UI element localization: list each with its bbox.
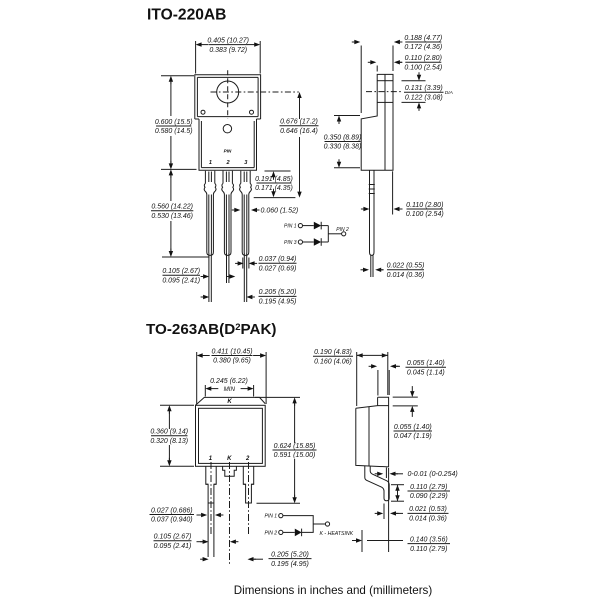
- common cathode bus wire: [327, 226, 329, 242]
- svg-text:0.646 (16.4): 0.646 (16.4): [280, 128, 318, 135]
- dim 0.405/0.383 (front width): [207, 37, 249, 53]
- svg-text:0.188 (4.77): 0.188 (4.77): [404, 35, 442, 42]
- TO-263 side lead (gull wing): [365, 466, 389, 501]
- dim 0.105/0.095 (lead pitch): [162, 268, 200, 284]
- corner hole right: [250, 110, 254, 114]
- svg-text:PIN 2: PIN 2: [264, 531, 277, 537]
- TO-263 body outline: [196, 405, 266, 466]
- svg-text:Dimensions in inches and (mill: Dimensions in inches and (millimeters): [234, 584, 433, 597]
- svg-text:1: 1: [209, 160, 212, 166]
- svg-text:PIN: PIN: [224, 149, 232, 154]
- svg-text:0.022 (0.55): 0.022 (0.55): [387, 263, 425, 270]
- dim 0.131/0.122 hole DIA: [404, 85, 444, 101]
- svg-text:0.624 (15.85): 0.624 (15.85): [274, 443, 316, 450]
- body dimple: [223, 125, 231, 133]
- dim 0.360/0.320 (body height): [150, 429, 188, 445]
- right dimension line 0.676: [297, 92, 301, 198]
- svg-text:PIN 1: PIN 1: [284, 224, 297, 230]
- svg-text:0-0.01 (0-0.254): 0-0.01 (0-0.254): [408, 471, 458, 478]
- svg-text:0.530 (13.46): 0.530 (13.46): [151, 213, 193, 220]
- svg-text:0.037 (0.94): 0.037 (0.94): [259, 256, 297, 263]
- svg-text:0.131 (3.39): 0.131 (3.39): [405, 85, 443, 92]
- TO-263 lead 2: [243, 466, 253, 503]
- diode D2: [314, 238, 321, 246]
- dim 0.205/0.195 (lead span): [259, 289, 297, 305]
- svg-text:0.195 (4.95): 0.195 (4.95): [259, 299, 297, 306]
- wire pin1 to diode D1: [303, 225, 314, 227]
- svg-text:0.411 (10.45): 0.411 (10.45): [211, 348, 252, 355]
- svg-text:0.095 (2.41): 0.095 (2.41): [162, 277, 200, 284]
- svg-text:0.320 (8.13): 0.320 (8.13): [150, 438, 188, 445]
- svg-text:PIN 3: PIN 3: [284, 240, 297, 246]
- svg-text:ITO-220AB: ITO-220AB: [147, 6, 226, 23]
- wire pin3 to diode D2: [303, 241, 314, 243]
- dim 0.560/0.530 (lead length): [151, 204, 193, 220]
- svg-text:3: 3: [244, 160, 248, 166]
- lead 2 (front view): [222, 171, 234, 256]
- terminal PIN 3: [298, 240, 302, 244]
- svg-text:0.330 (8.38): 0.330 (8.38): [324, 144, 362, 151]
- svg-text:0.090 (2.29): 0.090 (2.29): [410, 493, 448, 500]
- svg-text:0.405 (10.27): 0.405 (10.27): [207, 37, 249, 44]
- dim lines 0.191: [254, 171, 296, 198]
- dim 0.205/0.195 (lead pitch): [269, 551, 312, 567]
- svg-text:0.027 (0.69): 0.027 (0.69): [259, 265, 297, 272]
- dim 0.110/0.090 (foot height): [408, 484, 451, 500]
- svg-text:0.190 (4.83): 0.190 (4.83): [314, 349, 352, 356]
- dim 0.600/0.580 (front height): [155, 119, 193, 135]
- dim 0.140/0.110 (lead reach): [408, 536, 451, 552]
- diode D1: [314, 222, 321, 230]
- center centerline K: [229, 462, 231, 566]
- svg-text:0.045 (1.14): 0.045 (1.14): [407, 369, 445, 376]
- lead centerline 1: [210, 462, 212, 535]
- side view lead: [369, 170, 375, 255]
- svg-text:K: K: [227, 399, 232, 405]
- svg-text:0.110 (2.79): 0.110 (2.79): [410, 546, 447, 553]
- lead 1 (front view): [204, 171, 216, 256]
- side mold line: [368, 407, 370, 466]
- dim 0.021/0.014 (foot thickness): [408, 506, 449, 522]
- svg-text:0.360 (9.14): 0.360 (9.14): [150, 429, 188, 436]
- svg-text:0.122 (3.08): 0.122 (3.08): [405, 94, 443, 101]
- svg-text:0.350 (8.89): 0.350 (8.89): [324, 134, 362, 141]
- svg-text:2: 2: [245, 456, 250, 462]
- svg-text:0.021 (0.53): 0.021 (0.53): [409, 506, 447, 513]
- dim 0.188/0.172 (side total depth): [404, 35, 442, 51]
- ITO-220AB side view outline: [361, 74, 393, 170]
- dim 0.191/0.171 (lead shoulder): [255, 176, 293, 192]
- svg-text:0.160 (4.06): 0.160 (4.06): [314, 359, 352, 366]
- dim 0.676/0.646 (overall height): [280, 119, 319, 135]
- svg-text:MIN: MIN: [224, 386, 236, 393]
- svg-text:0.380 (9.65): 0.380 (9.65): [213, 358, 251, 365]
- wire diode to node (TO-263): [302, 524, 314, 532]
- svg-text:0.560 (14.22): 0.560 (14.22): [151, 204, 193, 211]
- dim 0.624/0.591 (overall height): [273, 443, 317, 459]
- hole centerlines: [211, 70, 299, 118]
- svg-text:0.195 (4.95): 0.195 (4.95): [271, 561, 309, 568]
- dim 0.110/0.100 (lead offset): [406, 202, 444, 218]
- svg-text:0.055 (1.40): 0.055 (1.40): [407, 360, 445, 367]
- svg-text:0.245 (6.22): 0.245 (6.22): [210, 378, 248, 385]
- lead 3 (front view): [240, 171, 252, 256]
- svg-text:0.100 (2.54): 0.100 (2.54): [406, 211, 444, 218]
- svg-text:0.676 (17.2): 0.676 (17.2): [280, 119, 318, 126]
- svg-text:0.037 (0.940): 0.037 (0.940): [151, 517, 193, 524]
- svg-text:0.095 (2.41): 0.095 (2.41): [154, 543, 192, 550]
- dim 0.350/0.330 (side body height): [324, 134, 362, 150]
- dim 0.110/0.100 (tab thickness): [404, 55, 442, 71]
- terminal K heatsink: [325, 522, 329, 526]
- svg-text:0.027 (0.686): 0.027 (0.686): [151, 507, 193, 514]
- svg-text:0.591 (15.00): 0.591 (15.00): [274, 452, 316, 459]
- dim 0.022/0.014 (lead thickness): [387, 263, 425, 279]
- corner hole left: [201, 110, 205, 114]
- svg-text:0.014 (0.36): 0.014 (0.36): [387, 272, 425, 279]
- terminal PIN 1: [298, 224, 302, 228]
- svg-text:0.100 (2.54): 0.100 (2.54): [404, 65, 442, 72]
- ITO-220AB front view package outline: [195, 75, 261, 170]
- mounting hole: [217, 81, 239, 103]
- svg-text:0.383 (9.72): 0.383 (9.72): [209, 47, 247, 54]
- svg-text:1: 1: [209, 456, 213, 462]
- TO-263 tab (trapezoid): [196, 397, 266, 405]
- lead centerline 2: [248, 462, 250, 535]
- diode D1 (TO-263): [295, 529, 302, 537]
- svg-text:K - HEATSINK: K - HEATSINK: [320, 531, 354, 537]
- dim 0.037/0.027 (lead tip width): [259, 256, 297, 272]
- svg-text:DIA: DIA: [445, 90, 453, 96]
- terminal PIN 1 (TO-263): [279, 514, 283, 518]
- lead seating plane tick: [385, 468, 387, 479]
- dim 0.055/0.047 (tab height): [394, 424, 433, 440]
- svg-text:0.140 (3.56): 0.140 (3.56): [410, 536, 448, 543]
- wire D1 to node: [321, 225, 328, 227]
- dim 0.055/0.045 (tab thickness): [406, 360, 447, 376]
- TO-263 side view body: [356, 397, 389, 467]
- svg-text:0.047 (1.19): 0.047 (1.19): [394, 433, 432, 440]
- left dimension line: [161, 76, 210, 257]
- svg-text:0.205 (5.20): 0.205 (5.20): [271, 551, 309, 558]
- svg-text:0.055 (1.40): 0.055 (1.40): [394, 424, 432, 431]
- wire node to PIN 2: [328, 233, 341, 235]
- wire node to K terminal: [313, 523, 325, 525]
- dim 0.411/0.380 (TO-263 width): [211, 348, 252, 364]
- svg-text:0.205 (5.20): 0.205 (5.20): [259, 289, 297, 296]
- dim 0.190/0.160 (side depth): [313, 349, 353, 365]
- svg-text:0.110 (2.79): 0.110 (2.79): [410, 484, 447, 491]
- dim 0.105/0.095 (lead to center): [154, 534, 192, 550]
- dim arrows tab height: [393, 386, 418, 417]
- svg-text:PIN 1: PIN 1: [264, 514, 277, 520]
- side view hole edge lines: [366, 81, 426, 103]
- svg-text:0.105 (2.67): 0.105 (2.67): [162, 268, 200, 275]
- dim lines 0.405: [196, 41, 261, 74]
- svg-text:0.580 (14.5): 0.580 (14.5): [155, 128, 193, 135]
- svg-text:K: K: [227, 456, 232, 462]
- svg-text:0.060 (1.52): 0.060 (1.52): [261, 207, 299, 214]
- svg-text:0.110 (2.80): 0.110 (2.80): [406, 202, 443, 209]
- svg-text:2: 2: [225, 160, 230, 166]
- wire D2 to node: [321, 241, 328, 243]
- svg-text:0.600 (15.5): 0.600 (15.5): [155, 119, 193, 126]
- svg-text:TO-263AB(D2PAK): TO-263AB(D2PAK): [146, 321, 276, 338]
- TO-263 center tab stub: [223, 466, 237, 476]
- svg-text:0.110 (2.80): 0.110 (2.80): [405, 55, 442, 62]
- dim 0.027/0.037 (lead width): [150, 507, 195, 523]
- side view mold line: [384, 74, 386, 170]
- terminal PIN 2 (TO-263): [279, 530, 283, 534]
- svg-text:0.014 (0.36): 0.014 (0.36): [409, 516, 447, 523]
- wire pin2 to diode (TO-263): [283, 531, 295, 533]
- svg-text:0.172 (4.36): 0.172 (4.36): [404, 44, 442, 51]
- terminal PIN 2: [342, 232, 346, 236]
- wire pin1 to node (TO-263): [283, 516, 313, 524]
- TO-263 lead 1: [206, 466, 216, 503]
- svg-text:0.105 (2.67): 0.105 (2.67): [154, 534, 192, 541]
